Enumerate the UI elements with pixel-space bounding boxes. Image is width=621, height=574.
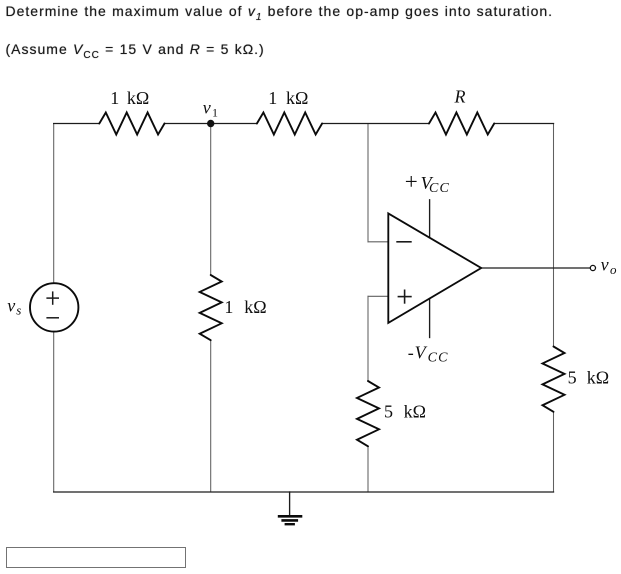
svg-text:1kΩ: 1kΩ (224, 297, 266, 317)
wire op-amp output (481, 267, 590, 269)
wire inverting input stub (368, 241, 388, 243)
svg-text:-VCC: -VCC (408, 342, 449, 365)
wire noninverting branch vertical (367, 296, 369, 381)
wire right branch upper vertical (553, 124, 555, 347)
svg-text:vs: vs (7, 296, 21, 318)
wire -Vcc supply (429, 299, 431, 338)
op-amp U1 triangle (388, 213, 481, 323)
voltage source vs circle (30, 283, 78, 331)
wire +Vcc supply (429, 200, 431, 238)
svg-text:R: R (454, 87, 466, 107)
wire ground stem (289, 492, 291, 515)
wire noninverting input stub (368, 295, 388, 297)
resistor R zigzag (top right) (429, 113, 494, 135)
node v1 junction dot (207, 120, 214, 127)
op-amp inverting input minus symbol (396, 241, 411, 243)
wire left vertical lower (source to bottom wire) (53, 332, 55, 492)
svg-text:vo: vo (601, 255, 617, 277)
svg-text:1kΩ: 1kΩ (268, 88, 308, 108)
output terminal circle (590, 265, 595, 270)
wire R1 to R2 through node v1 (165, 123, 257, 125)
svg-text:1kΩ: 1kΩ (110, 88, 149, 108)
wire R to right branch corner (494, 123, 553, 125)
resistor R1 1k zigzag (top left) (99, 113, 164, 135)
wire top-left horizontal (source to R1) (54, 123, 100, 125)
question line 1 (6, 3, 554, 23)
resistor 1k vertical zigzag (v1 branch) (200, 275, 222, 340)
source plus sign (46, 291, 59, 304)
resistor R2 1k zigzag (top middle) (257, 113, 322, 135)
resistor 5k vertical zigzag (right branch) (543, 347, 565, 412)
wire v1 branch upper (210, 124, 212, 276)
wire feedback vertical (367, 124, 369, 242)
answer input box (6, 547, 186, 569)
source minus sign (46, 317, 59, 319)
resistor 5k vertical zigzag (noninverting branch) (357, 381, 379, 446)
svg-text:5kΩ: 5kΩ (384, 402, 426, 422)
wire below noninverting 5k resistor (367, 446, 369, 492)
svg-text:5kΩ: 5kΩ (568, 368, 610, 388)
wire left vertical upper (top wire to source) (53, 124, 55, 284)
svg-text:v1: v1 (203, 98, 218, 120)
op-amp noninverting input plus symbol (398, 290, 412, 304)
wire R2 to R (322, 123, 429, 125)
wire right branch lower vertical (553, 412, 555, 492)
ground symbol (278, 516, 303, 524)
question line 2 (6, 41, 265, 61)
wire v1 branch lower (210, 340, 212, 492)
svg-text:+VCC: +VCC (405, 169, 450, 196)
wire bottom horizontal (54, 491, 554, 493)
